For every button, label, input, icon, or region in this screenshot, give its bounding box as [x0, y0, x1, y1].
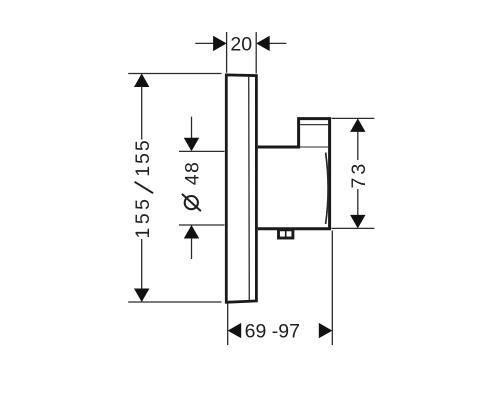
- dim 48 arrow up: [184, 225, 199, 239]
- dim 155 label slash: [135, 182, 154, 193]
- dim 69-97 arrow right: [319, 323, 333, 338]
- bottom tab divider: [285, 230, 287, 239]
- bottom tab: [279, 230, 293, 238]
- valve body outline: [258, 119, 330, 229]
- dim 73 arrow down: [350, 215, 365, 229]
- dim 48 arrow down: [184, 138, 199, 152]
- dim 73 extension line bottom: [332, 227, 375, 229]
- svg-text:73: 73: [348, 161, 370, 189]
- dim 69-97 extension line left: [227, 304, 229, 346]
- dim 73 arrow up: [350, 118, 365, 131]
- dim 155 arrow down: [134, 289, 149, 303]
- plate inner edge line: [248, 77, 251, 301]
- dim 155 extension line bottom: [128, 301, 221, 303]
- dim 155 line lower: [141, 239, 143, 289]
- dim 20 arrow left: [213, 36, 227, 51]
- dim 20 extension line right: [255, 32, 257, 74]
- cylinder arc on body right: [326, 153, 329, 225]
- dim 69-97 extension line right: [331, 231, 333, 346]
- dim 20 arrow right: [256, 36, 270, 51]
- svg-text:69 -97: 69 -97: [245, 321, 300, 343]
- dim 155 extension line top: [128, 73, 221, 75]
- escutcheon plate: [226, 75, 256, 302]
- dim 48 diameter symbol slash: [182, 194, 201, 211]
- svg-text:155: 155: [132, 195, 154, 238]
- dim 73 line upper: [357, 131, 359, 160]
- dim 69-97 arrow left: [228, 323, 242, 338]
- dim 155 line upper: [141, 87, 143, 140]
- svg-text:155: 155: [132, 138, 154, 177]
- dim 20 extension line left: [226, 32, 228, 73]
- dim 48 extension line top: [179, 150, 225, 152]
- knob base joint line: [300, 146, 329, 148]
- dim 20 leader right: [269, 42, 286, 44]
- knob cap line: [300, 124, 328, 126]
- dim 48 line top: [191, 117, 193, 139]
- dim 48 line bottom: [191, 238, 193, 259]
- dim 73 line lower: [357, 189, 359, 216]
- dim 155 arrow up: [134, 74, 149, 88]
- dim 20 leader left: [195, 42, 213, 44]
- svg-text:20: 20: [230, 34, 252, 56]
- dim 48 diameter symbol circle: [185, 196, 198, 209]
- dim 48 extension line bottom: [179, 224, 225, 226]
- dim 73 extension line top: [332, 117, 375, 119]
- svg-text:48: 48: [182, 161, 204, 186]
